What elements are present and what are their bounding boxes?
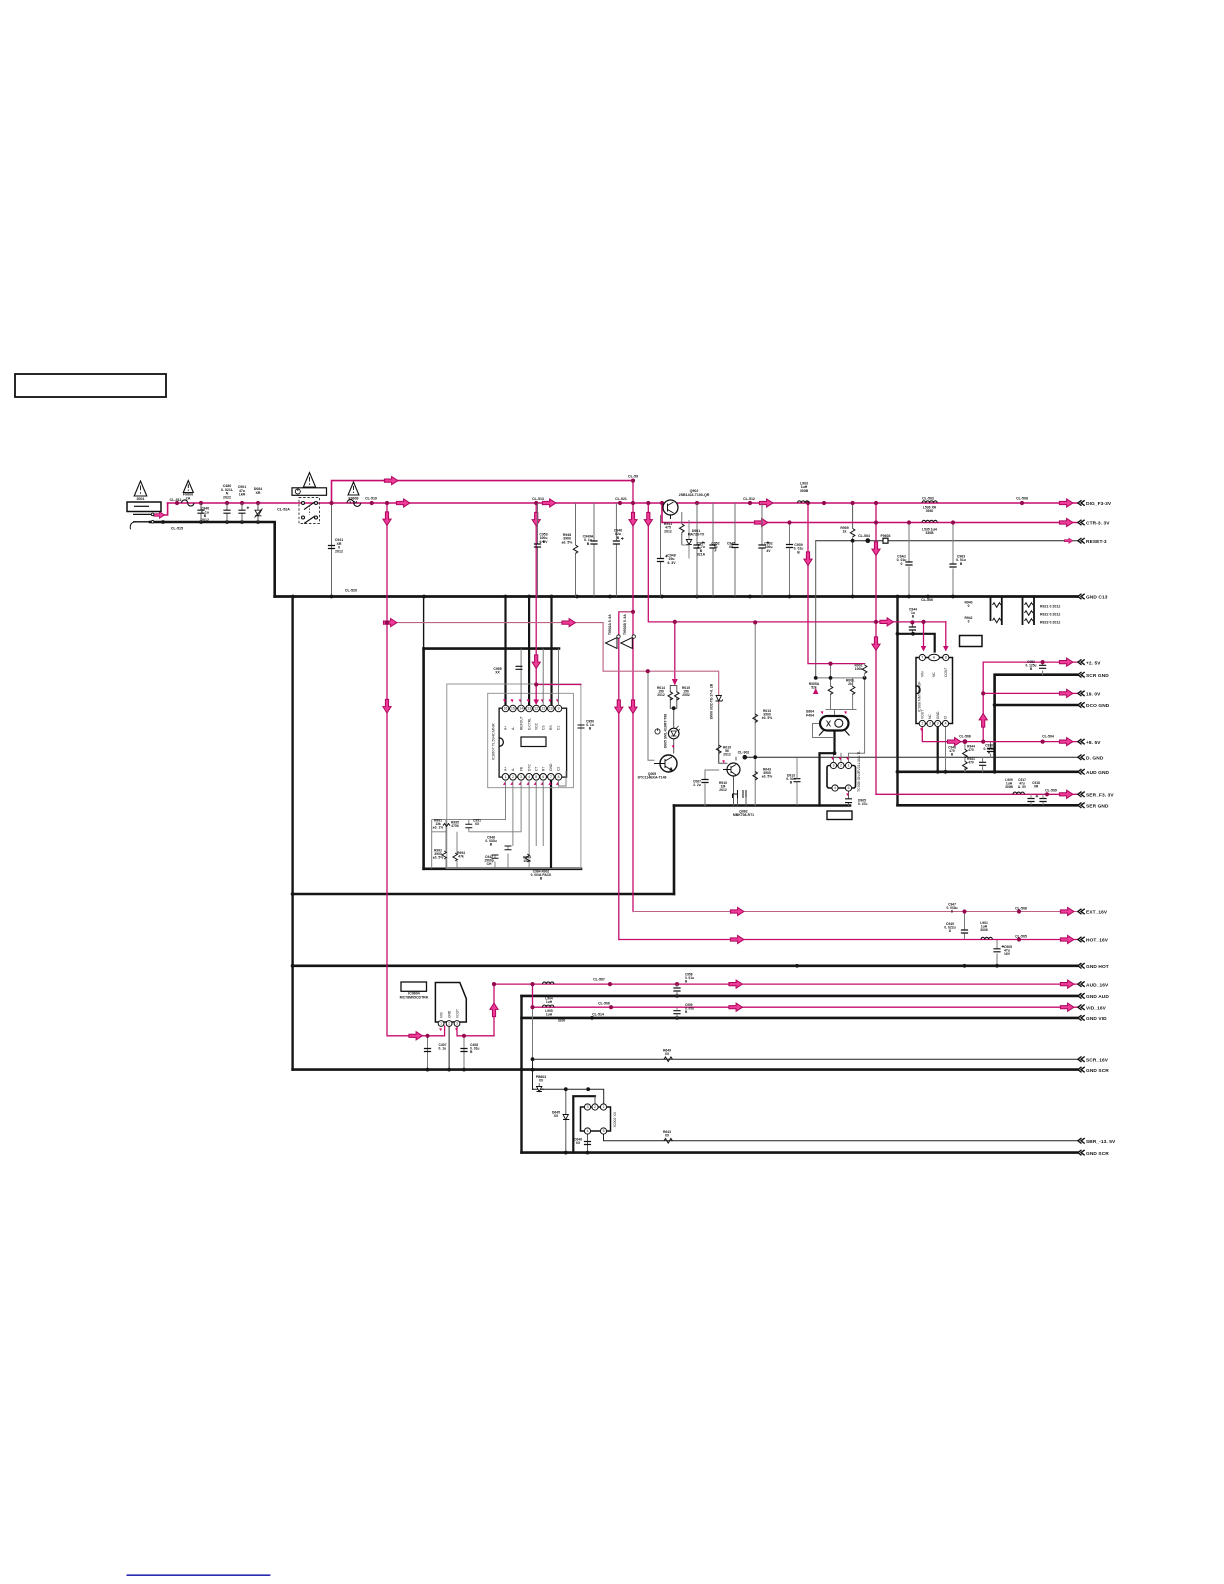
svg-text:CL-507: CL-507 — [593, 978, 605, 982]
capacitor C949A — [590, 541, 597, 544]
svg-text:C9074. 7uB321A: C9074. 7uB321A — [697, 542, 706, 557]
inductor L536 — [922, 501, 937, 503]
resistor R941b — [681, 512, 683, 524]
flow arrow down — [532, 655, 540, 669]
svg-text:7: 7 — [921, 656, 923, 660]
svg-text:AUD_16V: AUD_16V — [1086, 982, 1109, 988]
svg-text:CL-506: CL-506 — [598, 1002, 610, 1006]
capacitor C901 — [238, 510, 245, 513]
wire R005A column — [830, 664, 832, 710]
svg-text:5: 5 — [535, 775, 537, 779]
flow arrow down — [644, 512, 652, 526]
flow arrow — [729, 980, 743, 988]
svg-text:VID_16V: VID_16V — [1086, 1005, 1107, 1011]
wire drop to pin6 — [945, 622, 947, 648]
wire right IC caps col2 — [982, 757, 984, 772]
resistor R643 — [664, 1139, 672, 1144]
capacitor C963 — [949, 564, 956, 567]
empty label rect near IC908 — [960, 636, 983, 647]
wire IC9607 shield box top — [424, 647, 559, 650]
svg-text:EXT_16V: EXT_16V — [1086, 910, 1108, 916]
svg-text:5: 5 — [603, 1129, 605, 1133]
wire VCC to pin12 — [535, 685, 537, 704]
svg-text:1: 1 — [440, 1022, 442, 1026]
wire S804 fb loop — [813, 724, 834, 763]
wire VID_16V run — [533, 1006, 1078, 1008]
wire SCR GND short — [995, 675, 1077, 772]
switch S001 label box — [292, 488, 327, 496]
zener D006 — [716, 696, 723, 702]
wire c963 cap drop — [952, 523, 954, 597]
empty label rect under TC908 — [827, 811, 852, 820]
capacitor C948 — [657, 559, 664, 562]
wire D.GND net — [745, 756, 1077, 758]
flow arrow — [947, 738, 961, 746]
inductor L905 — [543, 1005, 554, 1007]
wire reg feed x=387 — [387, 503, 445, 1036]
arrowhead drop pin7 — [921, 646, 927, 652]
resistor R014 — [668, 692, 673, 700]
svg-text:6: 6 — [542, 775, 544, 779]
svg-text:4: 4 — [587, 1129, 589, 1133]
resistor zig — [1025, 603, 1033, 608]
wire r909 column — [852, 503, 854, 597]
varistor D084 — [255, 509, 263, 518]
svg-text:DTC: DTC — [527, 764, 531, 771]
wire c905 col — [996, 940, 998, 966]
capacitor C646 — [584, 1142, 591, 1145]
svg-text:L9051uH: L9051uH — [545, 1009, 553, 1017]
svg-text:C1: C1 — [557, 726, 561, 730]
svg-text:RT: RT — [541, 767, 545, 771]
svg-text:CL-504: CL-504 — [858, 534, 870, 538]
wire c949 tap — [964, 912, 966, 929]
svg-text:CL-514: CL-514 — [592, 1013, 604, 1017]
wire ground trunk x=897.5 — [896, 597, 898, 806]
flow arrow — [384, 477, 398, 485]
led D005 — [668, 728, 679, 739]
svg-text:SER GND: SER GND — [1086, 804, 1109, 810]
empty label rect IC9604 — [401, 982, 427, 991]
transistor Q005 — [660, 755, 677, 772]
svg-text:CL-503: CL-503 — [922, 497, 934, 501]
wire D645 branch — [565, 1089, 567, 1152]
wire hot ground drop x=674 — [673, 806, 676, 895]
wire r018 r043 column — [754, 622, 756, 805]
wire left ground trunk x=293 — [291, 597, 293, 1070]
capacitor C941 — [328, 546, 335, 549]
connector CTR-3. 3V — [1078, 520, 1085, 525]
wire 19.0V run — [983, 692, 1077, 694]
capacitor C958 — [673, 988, 680, 991]
wire right IC caps col1 — [990, 742, 992, 758]
connector SER GND — [1078, 803, 1085, 808]
svg-text:3: 3 — [456, 1022, 458, 1026]
wire drop to pin7 — [923, 622, 925, 648]
opto TC908 body — [827, 766, 856, 789]
svg-text:VCC: VCC — [534, 722, 538, 730]
capacitor C945c — [979, 762, 986, 765]
flow arrow down — [629, 512, 637, 526]
wire right IC VIN feed — [898, 634, 935, 652]
svg-text:14: 14 — [519, 707, 523, 711]
wire SER GND — [898, 804, 1078, 807]
wire R001 column — [852, 678, 854, 710]
wire c949 col — [964, 928, 966, 940]
connector GND SCR — [1078, 1150, 1085, 1155]
resistor zig — [1025, 619, 1033, 624]
wire d005 led column — [673, 708, 675, 753]
capacitor C945 — [731, 545, 738, 548]
flow arrow lineA — [383, 619, 397, 627]
svg-text:CL-511: CL-511 — [170, 498, 182, 502]
wire GND VID — [522, 1017, 1078, 1020]
svg-text:D006 UDZ-TE-17-6. 2B: D006 UDZ-TE-17-6. 2B — [710, 683, 714, 719]
svg-text:A-: A- — [511, 768, 515, 771]
svg-text:VOUT: VOUT — [455, 1009, 459, 1018]
wire DCO GND short — [995, 704, 1077, 707]
resistor R001 — [850, 686, 855, 694]
wire pin14 pin11 stubs — [521, 649, 558, 706]
resistor zig — [993, 618, 1001, 623]
wire right IC GND pin drop — [937, 727, 939, 772]
inductor L535 — [922, 520, 937, 522]
connector EXT_16V — [1078, 909, 1085, 914]
resistor R015 — [675, 692, 680, 700]
wire GND HOT — [293, 964, 1077, 967]
wire hot ground return y=894 — [293, 893, 674, 895]
wire tc908 pin1 riser — [849, 678, 865, 762]
svg-text:CONT: CONT — [944, 668, 948, 677]
wire r944 r941 col — [964, 742, 966, 772]
capacitor C953 — [534, 544, 541, 547]
svg-text:2: 2 — [594, 1105, 596, 1109]
flow arrow — [1059, 658, 1073, 666]
wire EXT/dig vertical x=633 — [632, 481, 634, 912]
connector D. GND — [1078, 755, 1085, 760]
svg-text:R922 0 2012: R922 0 2012 — [1040, 613, 1060, 617]
inductor L901 — [981, 937, 992, 939]
svg-text:RESET-3: RESET-3 — [1086, 539, 1107, 545]
connector 19. 0V — [1078, 691, 1085, 696]
svg-text:2: 2 — [929, 722, 931, 726]
flow arrow down — [615, 700, 623, 714]
ic9607 pins bottom — [502, 774, 562, 781]
svg-text:DCO GND: DCO GND — [1086, 703, 1110, 709]
svg-text:T9502A 5. 6A: T9502A 5. 6A — [608, 614, 612, 635]
fuse F9600 — [182, 500, 194, 506]
warning triangle 3001 — [134, 481, 147, 496]
svg-text:IC002 XX: IC002 XX — [613, 1111, 617, 1127]
svg-text:R9923900±0. 5%: R9923900±0. 5% — [433, 849, 443, 860]
wire c936 col — [1042, 662, 1044, 675]
arrowhead vcc pin12 — [533, 700, 539, 706]
svg-text:C4070. 1u: C4070. 1u — [439, 1043, 447, 1051]
svg-text:SCR_16V: SCR_16V — [1086, 1057, 1109, 1063]
warning triangle S001 — [303, 473, 315, 488]
capacitor D913 — [794, 779, 801, 782]
wire HOT_16V run — [619, 939, 1077, 941]
capacitor C902 — [758, 545, 765, 548]
inductor L903 — [798, 501, 809, 503]
svg-text:SER_F3. 3V: SER_F3. 3V — [1086, 793, 1114, 799]
connector GND HOT — [1078, 963, 1085, 968]
wire SBR -13.5V net — [604, 1131, 1078, 1141]
wire hot ground elbow y=805.5 — [674, 804, 850, 807]
svg-text:4: 4 — [945, 722, 947, 726]
connector DCO GND — [1078, 702, 1085, 707]
pin ticks s804 — [821, 711, 824, 714]
flow arrow — [1060, 907, 1074, 915]
wire d905 cap drop — [848, 792, 850, 806]
flow arrow down — [383, 699, 391, 713]
flow arrow — [880, 618, 894, 626]
svg-text:1: 1 — [603, 1105, 605, 1109]
transistor Q009 — [727, 763, 740, 776]
svg-text:L9011uH3006: L9011uH3006 — [980, 921, 988, 932]
flow arrow — [1059, 790, 1073, 798]
svg-text:3: 3 — [587, 1105, 589, 1109]
wire IC9607 shield box bottom — [424, 867, 581, 870]
resistor R941 zig — [680, 524, 685, 532]
wire r910 tap — [705, 769, 719, 771]
flow arrow — [1060, 1003, 1074, 1011]
connector AUD_16V — [1078, 981, 1085, 986]
svg-text:2: 2 — [840, 764, 842, 768]
wire C646 branch pin4 — [587, 1134, 589, 1153]
svg-text:F96092. 5A: F96092. 5A — [348, 497, 358, 505]
capacitor C952b — [1039, 665, 1046, 668]
flow arrow — [1059, 689, 1073, 697]
wire GND C13 main ground bus — [275, 595, 1077, 598]
wire bottom box left edge — [520, 996, 522, 1153]
pad F9603 — [883, 538, 888, 543]
wire AUD_16V run — [494, 983, 1077, 985]
wire link y=611.8 — [619, 611, 633, 613]
capacitor C917 — [1027, 799, 1034, 802]
svg-text:R0133900±0. 5%: R0133900±0. 5% — [762, 709, 772, 720]
flow arrow — [1059, 738, 1073, 746]
node CL-504 — [865, 538, 870, 543]
svg-text:DIG_F3-3V: DIG_F3-3V — [1086, 501, 1112, 507]
flow arrow — [1060, 980, 1074, 988]
svg-text:D. GND: D. GND — [1086, 755, 1104, 761]
svg-text:C953100u6. 3V: C953100u6. 3V — [539, 533, 548, 544]
connector SBR_-13. 5V — [1078, 1138, 1085, 1143]
svg-text:CL-513: CL-513 — [532, 497, 544, 501]
svg-text:VIN: VIN — [921, 671, 925, 677]
arrowhead drop pin6 — [943, 646, 949, 652]
svg-text:CL-505: CL-505 — [921, 598, 933, 602]
zener D645 — [563, 1115, 569, 1120]
inductor L904 — [543, 982, 554, 984]
capacitor C905 — [993, 949, 1000, 952]
resistor R948 zig — [573, 545, 578, 553]
wire C408 tap — [463, 1036, 465, 1070]
flow arrow down — [872, 637, 880, 651]
node CL-902 — [743, 755, 748, 760]
svg-text:TC908 GN4RV21L3A4-TL: TC908 GN4RV21L3A4-TL — [857, 751, 861, 792]
svg-text:16: 16 — [504, 707, 508, 711]
resistor R909 — [850, 529, 855, 537]
flow arrow — [754, 518, 768, 526]
svg-text:1: 1 — [848, 764, 850, 768]
svg-text:C90147u1kR: C90147u1kR — [238, 485, 247, 497]
svg-text:12: 12 — [534, 707, 538, 711]
wire SER_F3.3V run — [876, 793, 1077, 795]
resistor network R940/R942/R921-R923 — [991, 597, 1035, 626]
wire fb node row — [816, 677, 865, 679]
svg-text:R921 0 2012: R921 0 2012 — [1040, 605, 1060, 609]
connector +8. 5V — [1078, 739, 1085, 744]
svg-text:CTR-3. 3V: CTR-3. 3V — [1086, 521, 1110, 527]
resistor R944 — [963, 749, 968, 757]
warning triangle F9609 — [348, 482, 359, 495]
svg-text:+8. 5V: +8. 5V — [1086, 740, 1101, 746]
svg-text:CL-59: CL-59 — [628, 475, 638, 479]
wire regulator gnd pin — [448, 1026, 450, 1070]
connector AUD GND — [1078, 769, 1085, 774]
resistor R043 — [753, 772, 758, 780]
svg-text:3001: 3001 — [136, 497, 144, 501]
wire r014 r015 pair — [670, 686, 677, 709]
svg-text:GND: GND — [549, 763, 553, 771]
switch S001 contacts — [299, 498, 320, 524]
wire C941 vertical — [331, 503, 333, 597]
capacitor C9A2 — [905, 562, 912, 565]
svg-text:7: 7 — [550, 775, 552, 779]
svg-text:IC9607 TL594CMNR: IC9607 TL594CMNR — [491, 723, 496, 760]
flow arrow — [542, 499, 556, 507]
regulator S804 — [820, 716, 849, 731]
wire line A feedback — [394, 623, 719, 703]
svg-text:10: 10 — [549, 707, 553, 711]
resistor zig — [993, 603, 1001, 608]
capacitor D905 — [845, 799, 852, 803]
wire VCC drop x=536.2 — [535, 503, 537, 685]
svg-text:T9502B 5. 6A: T9502B 5. 6A — [623, 614, 627, 635]
title block rectangle (empty) — [15, 374, 166, 397]
wire C944 drop — [911, 622, 913, 633]
wire c939 drop — [789, 523, 791, 597]
svg-text:1: 1 — [921, 722, 923, 726]
flow arrow — [1059, 499, 1073, 507]
wire tc908 pin2 stub — [840, 753, 842, 762]
wire pin7 to box bottom — [550, 780, 552, 869]
wire S804 emitter down — [833, 731, 835, 754]
connector VID_16V — [1078, 1005, 1085, 1010]
svg-text:CL-52A: CL-52A — [277, 508, 290, 512]
fuse F9609 — [347, 500, 361, 507]
connector GND AUD — [1078, 993, 1085, 998]
AC inlet J001 — [127, 502, 161, 512]
arrowhead drop R014 — [672, 679, 678, 686]
small reset arrow — [1064, 538, 1072, 543]
svg-text:SCR GND: SCR GND — [1086, 673, 1109, 679]
flow arrow — [396, 499, 410, 507]
svg-text:GND AUD: GND AUD — [1086, 994, 1109, 1000]
svg-text:CL-519: CL-519 — [365, 497, 377, 501]
resistor R013 — [753, 714, 758, 722]
transistor Q062 — [733, 790, 747, 798]
svg-text:4: 4 — [834, 786, 836, 790]
node CL-505 pad — [963, 739, 968, 744]
small inlet arrow — [154, 512, 165, 519]
wire zener D006 line lower — [719, 703, 727, 763]
inductor L909 — [1013, 792, 1024, 794]
svg-text:REFOUT: REFOUT — [519, 716, 523, 730]
op-ic IC9607 body — [499, 708, 566, 777]
bottom network symbols — [442, 824, 529, 862]
resistor R649 — [664, 1057, 672, 1062]
wire AC neutral from inlet to GND bus — [150, 522, 275, 597]
svg-text:6: 6 — [848, 786, 850, 790]
wire bus to pin10 — [550, 597, 552, 706]
warning triangle F9600 — [183, 481, 193, 493]
flow arrow — [759, 499, 773, 507]
wire bus to pin13 — [528, 597, 530, 706]
svg-text:3: 3 — [937, 722, 939, 726]
wire GND SCR bottom — [522, 1151, 1078, 1154]
svg-text:C0672. 2u: C0672. 2u — [693, 780, 701, 788]
svg-text:CL-505: CL-505 — [1015, 935, 1027, 939]
wire bus to pin16 — [504, 597, 506, 706]
flow arrow — [730, 935, 744, 943]
wire SER drop x=876 — [875, 503, 877, 794]
pin ticks tc908 — [831, 757, 834, 760]
wire pin2 stub — [594, 1096, 596, 1104]
wire q009 collector node — [735, 757, 737, 760]
wire q062 drain — [738, 797, 747, 806]
wire S804 feed x=808 — [808, 503, 865, 664]
wire HOT vertical x=618.8 — [619, 612, 633, 940]
wire control line B — [675, 621, 946, 623]
arrowhead up reset — [813, 688, 819, 694]
svg-text:CI: CI — [944, 716, 948, 719]
svg-text:GND: GND — [936, 711, 940, 719]
ic9607 pins top — [502, 705, 562, 712]
wire SCR_16V net — [533, 1058, 1078, 1060]
svg-text:15: 15 — [511, 707, 515, 711]
svg-text:NC: NC — [928, 714, 932, 719]
wire c067 cap — [704, 770, 706, 806]
connector SER_F3. 3V — [1078, 792, 1085, 797]
svg-text:R9954750: R9954750 — [451, 821, 459, 829]
svg-text:RS: RS — [549, 725, 553, 730]
wire TC908 gnd elbow — [820, 753, 835, 805]
wire +2.5V / 19V riser — [983, 662, 1077, 742]
flow arrow — [409, 1032, 423, 1040]
svg-text:2: 2 — [448, 1022, 450, 1026]
svg-text:A+: A+ — [504, 726, 508, 730]
svg-text:C2: C2 — [557, 767, 561, 771]
capacitor C955 — [516, 666, 523, 669]
junction dots (pink nets) — [175, 501, 179, 505]
wire EXT_16V run — [633, 911, 1077, 913]
pin tick q005 — [672, 745, 675, 748]
capacitor C944 — [909, 627, 916, 630]
svg-text:D.CTRL: D.CTRL — [527, 718, 531, 730]
svg-text:CL-512: CL-512 — [743, 497, 755, 501]
op-ic IC908 body — [916, 658, 953, 724]
svg-text:AUD GND: AUD GND — [1086, 770, 1110, 776]
connector GND SCR — [1078, 1067, 1085, 1072]
ic9607 pin ticks — [503, 699, 559, 785]
svg-text:R002100k: R002100k — [855, 664, 863, 672]
svg-text:GND: GND — [447, 1010, 451, 1018]
wire pb603 vertical — [532, 1059, 534, 1089]
capacitor C950 — [578, 725, 585, 728]
